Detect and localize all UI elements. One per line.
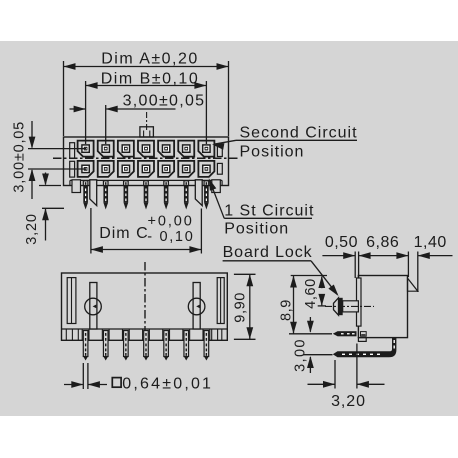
extension line Dim B left (85, 81, 87, 144)
svg-text:Board Lock: Board Lock (223, 244, 313, 261)
rear view base line (62, 328, 228, 330)
cavity column 1 top row (circuit 8) (78, 141, 94, 157)
extension line Dim B right (205, 81, 207, 144)
dimension text 4,60 (rotated) (303, 278, 319, 309)
cavity column 7 top row (circuit 14) (198, 141, 214, 157)
rear view body outline (62, 273, 228, 340)
rear view right blade (217, 278, 224, 324)
svg-text:3,20: 3,20 (24, 213, 40, 244)
dimension line 8,9 (290, 276, 297, 334)
dimension line 3,00 top left arrow (70, 106, 86, 113)
dimension line 9,90 (246, 274, 253, 339)
front view right end tab (212, 180, 221, 193)
rear view right board lock post (193, 283, 200, 330)
cavity column 5 bottom row (circuit 5) (158, 161, 174, 177)
0,64 dimension arrows (64, 381, 107, 388)
cavity column 2 bottom row (circuit 2) (98, 161, 114, 177)
dimension line 3,00 side upper (307, 317, 314, 333)
extension line 9,90 top (234, 273, 256, 275)
rear view left blade (67, 278, 76, 324)
dimension line Dim B (86, 82, 207, 89)
dimension line 4,60 lower (318, 294, 325, 306)
side view body outline (358, 276, 407, 338)
front view right board lock leg (195, 180, 202, 206)
svg-text:- 0,10: - 0,10 (147, 229, 194, 245)
front view solder pin 3 (124, 181, 129, 210)
cavity column 4 bottom row (circuit 4) (138, 161, 154, 177)
svg-text:Dim C: Dim C (99, 225, 148, 242)
front view vertical centerline above tab (146, 112, 148, 130)
dimension text 8,9 (rotated) (279, 299, 295, 321)
rear view left board lock post (90, 283, 97, 330)
dimension text 9,90 (rotated) (233, 292, 249, 323)
cavity column 7 bottom row (circuit 7) (198, 161, 214, 177)
extension line E2 (358, 252, 360, 278)
extension line Dim C right (200, 209, 202, 254)
dimension line 4,60 upper (318, 276, 325, 288)
cavity column 6 bottom row (circuit 6) (178, 161, 194, 177)
row pitch dimension lower arrow (29, 169, 36, 199)
3,20 lower arrow (42, 208, 49, 240)
svg-text:0,50: 0,50 (325, 234, 358, 251)
extension line 3,00 top (105, 105, 107, 144)
svg-text:Position: Position (224, 221, 289, 238)
side view lower L-shaped pin (333, 338, 397, 358)
svg-text:8,9: 8,9 (279, 299, 295, 321)
extension line pin tip level (42, 207, 64, 209)
dimension line Dim A (64, 63, 229, 70)
front view left end tab (72, 180, 81, 193)
rear view pin 7 (204, 331, 209, 361)
dimension line 3,00 side lower (307, 356, 314, 373)
extension line Dim A right (228, 61, 230, 136)
dimension text Dim B±0,10 (101, 71, 199, 88)
note Second Circuit Position (240, 125, 358, 161)
svg-text:6,86: 6,86 (366, 234, 399, 251)
dimension text 3,00±0,05 left (rotated) (12, 121, 28, 193)
dimension text 0,50 (325, 234, 358, 251)
svg-text:Position: Position (240, 144, 305, 161)
3,20 dimension arrows (308, 381, 385, 388)
board lock stem (343, 301, 359, 312)
dimension line 3,00 top right arrow (106, 106, 176, 113)
board lock dark base (339, 298, 343, 315)
side view upper pin (333, 331, 366, 336)
rear view left board lock circle (85, 298, 102, 315)
extension line E4 (417, 252, 419, 293)
extension line Dim A left (63, 61, 65, 136)
dimension text 3,00±0,05 top (123, 93, 206, 110)
note Board Lock (223, 244, 313, 261)
extension line lower pin level (303, 354, 333, 356)
front view solder pin 4 (144, 181, 149, 210)
front view solder pin 2 (103, 181, 108, 210)
dimension text 3,20 (331, 393, 366, 410)
side view bottom foot (358, 338, 366, 342)
front view left board lock leg (90, 180, 97, 206)
extension line row1 (28, 148, 86, 150)
cavity column 6 top row (circuit 13) (178, 141, 194, 157)
front view solder pin 6 (184, 181, 189, 210)
extension line side body top (291, 275, 327, 277)
rear view pin 3 (124, 331, 129, 361)
rear view pin 5 (164, 331, 169, 361)
front view solder pin 7 (204, 181, 209, 210)
svg-text:0,64±0,01: 0,64±0,01 (122, 376, 213, 393)
cavity column 3 top row (circuit 10) (118, 141, 134, 157)
extension line E3 (407, 252, 409, 278)
0,64 extension lines (83, 363, 88, 389)
front view left inner slots (70, 143, 75, 177)
front view connector body outline (64, 137, 229, 186)
rear view flange slots (66, 329, 222, 340)
svg-text:1,40: 1,40 (414, 234, 447, 251)
front view polarization tab (140, 127, 154, 137)
svg-text:1 St Circuit: 1 St Circuit (224, 203, 314, 220)
dimension text Dim A±0,20 (101, 51, 199, 68)
rear view pin 6 (184, 331, 189, 361)
leader Second Circuit (212, 140, 357, 150)
extension line body bottom (39, 185, 61, 187)
dimension text 3,00 side (rotated) (293, 338, 309, 372)
front view horizontal centerline (53, 157, 239, 159)
dimension text □0,64±0,01 (112, 376, 213, 393)
3,20 extension left (334, 360, 336, 389)
dimension text 3,20 left (rotated) (24, 213, 40, 244)
front view solder pin 1 (83, 181, 88, 210)
rear view pin 4 (144, 331, 149, 361)
extension line upper pin level (289, 333, 332, 335)
svg-text:3,00±0,05: 3,00±0,05 (12, 121, 28, 193)
note 1 St Circuit Position (224, 203, 314, 238)
svg-text:Second Circuit: Second Circuit (240, 125, 358, 142)
cavity column 1 bottom row (circuit 1) (78, 161, 94, 177)
3,20 extension right (356, 344, 358, 389)
svg-text:3,20: 3,20 (331, 393, 366, 410)
cavity column 5 top row (circuit 12) (158, 141, 174, 157)
dimension text Dim C (99, 213, 194, 245)
side top dimension line (322, 252, 452, 259)
side view top-right flag (408, 278, 418, 291)
3,20 upper arrow (42, 173, 49, 186)
dimension line Dim C (91, 246, 201, 253)
leader Board Lock (223, 261, 339, 296)
svg-text:+0,00: +0,00 (148, 213, 194, 229)
side view left blade (357, 278, 362, 326)
board lock cone (334, 298, 339, 315)
rear view pin 1 (83, 331, 88, 361)
dimension text 1,40 (414, 234, 447, 251)
extension line 9,90 bottom (234, 338, 256, 340)
rear view right board lock circle (188, 298, 205, 315)
cavity column 2 top row (circuit 9) (98, 141, 114, 157)
board lock centerline (325, 305, 374, 307)
extension line Dim C left (90, 208, 92, 254)
extension tick 4,60 (318, 305, 326, 307)
svg-text:3,00±0,05: 3,00±0,05 (123, 93, 206, 110)
front view right inner slots (217, 145, 222, 175)
svg-text:Dim A±0,20: Dim A±0,20 (101, 51, 199, 68)
extension line E1 (354, 252, 356, 279)
rear view pin 2 (103, 331, 108, 361)
row pitch dimension upper arrow (29, 121, 36, 149)
cavity column 4 top row (circuit 11) (138, 141, 154, 157)
front view bottom ledge line (70, 180, 222, 185)
cavity column 3 bottom row (circuit 3) (118, 161, 134, 177)
leader 1 St Circuit (209, 178, 312, 218)
svg-text:4,60: 4,60 (303, 278, 319, 309)
front view solder pin 5 (164, 181, 169, 210)
rear view vertical centerline (144, 262, 146, 348)
extension line row2 (28, 168, 86, 170)
svg-text:9,90: 9,90 (233, 292, 249, 323)
dimension text 6,86 (366, 234, 399, 251)
